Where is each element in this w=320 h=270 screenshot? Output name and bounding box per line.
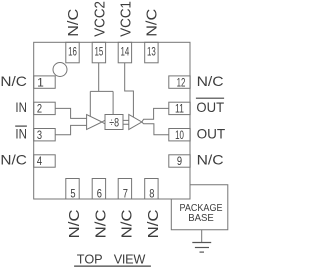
svg-text:N/C: N/C	[0, 73, 27, 89]
pin 13 box	[145, 42, 158, 63]
svg-text:N/C: N/C	[145, 9, 161, 37]
svg-text:16: 16	[68, 45, 77, 59]
svg-text:5: 5	[70, 187, 75, 201]
svg-text:12: 12	[177, 75, 186, 89]
caption TOP VIEW	[77, 253, 146, 267]
svg-text:4: 4	[37, 154, 42, 168]
svg-text:11: 11	[175, 102, 184, 116]
svg-text:N/C: N/C	[197, 152, 224, 168]
pin-1 indicator circle	[53, 63, 67, 77]
pin 11 box	[169, 102, 190, 114]
package outline	[34, 42, 190, 199]
svg-text:÷8: ÷8	[109, 117, 119, 129]
svg-text:BASE: BASE	[188, 212, 214, 224]
wire pin2 to buffer U1 input	[55, 108, 86, 118]
wire VCC2 pin15 rail	[90, 63, 113, 92]
svg-text:15: 15	[95, 45, 104, 59]
svg-text:10: 10	[175, 128, 184, 142]
wire VCC2 branch to U1	[89, 91, 91, 116]
pin 7 box	[118, 179, 131, 200]
buffer amplifier U1	[87, 115, 102, 130]
caption underline	[74, 265, 151, 267]
buffer amplifier U2	[129, 115, 142, 130]
ground symbol	[192, 243, 211, 253]
side pin labels	[0, 73, 225, 168]
svg-text:N/C: N/C	[0, 152, 27, 168]
pin 9 box	[169, 155, 190, 167]
pin 2 box	[34, 102, 56, 114]
svg-text:6: 6	[97, 187, 102, 201]
svg-text:14: 14	[121, 45, 130, 59]
svg-text:N/C: N/C	[66, 9, 82, 37]
svg-text:IN: IN	[15, 125, 27, 141]
wire VCC1 pin14 to U2	[125, 63, 134, 118]
svg-text:TOP: TOP	[77, 253, 103, 267]
svg-text:8: 8	[149, 187, 154, 201]
pin 16 box	[66, 42, 79, 63]
overline for pin 11 OUT-bar	[196, 97, 224, 99]
svg-text:2: 2	[37, 102, 42, 116]
pin 8 box	[145, 179, 158, 200]
wire U2 output to pin11	[142, 108, 169, 122]
svg-text:3: 3	[37, 128, 42, 142]
pin 15 box	[92, 42, 105, 63]
svg-text:VCC2: VCC2	[92, 1, 108, 37]
svg-text:N/C: N/C	[197, 73, 224, 89]
svg-text:13: 13	[147, 45, 156, 59]
pin 1 box	[34, 76, 56, 88]
pin 3 box	[34, 129, 56, 141]
wire VCC2 branch to divider	[112, 91, 114, 114]
svg-text:VCC1: VCC1	[118, 1, 134, 37]
top pin labels (rotated)	[66, 1, 162, 238]
wire U2 output to pin10	[142, 122, 169, 135]
svg-text:IN: IN	[15, 99, 27, 115]
pin 10 box	[169, 129, 190, 141]
svg-text:7: 7	[123, 187, 128, 201]
divide-by-8 block	[105, 115, 123, 130]
svg-text:N/C: N/C	[67, 209, 83, 238]
svg-text:OUT: OUT	[196, 99, 224, 115]
pin 4 box	[34, 155, 56, 167]
wire U1 output to divider (pair)	[102, 120, 105, 124]
svg-text:N/C: N/C	[120, 209, 136, 238]
pin 5 box	[66, 179, 79, 200]
wire divider to buffer U2 (pair)	[123, 120, 129, 124]
svg-text:N/C: N/C	[93, 209, 109, 238]
pin 12 box	[169, 76, 190, 88]
pin 14 box	[118, 42, 131, 63]
svg-text:N/C: N/C	[146, 209, 162, 238]
wire pin3 to buffer U1 input	[55, 125, 86, 134]
overline for pin 3 IN-bar	[15, 125, 27, 127]
svg-text:1: 1	[37, 75, 44, 89]
svg-text:OUT: OUT	[197, 125, 226, 141]
package base box	[171, 185, 228, 230]
svg-text:VIEW: VIEW	[114, 253, 146, 267]
ground wire	[201, 230, 203, 243]
svg-text:9: 9	[177, 154, 182, 168]
pin 6 box	[92, 179, 105, 200]
package base label	[180, 202, 223, 224]
